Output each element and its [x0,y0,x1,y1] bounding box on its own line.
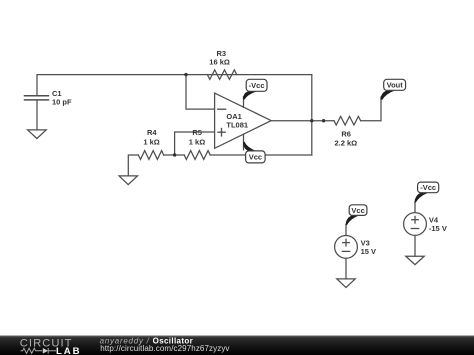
svg-text:http://circuitlab.com/c297hz67: http://circuitlab.com/c297hz67zyzyv [100,344,229,353]
wire V4 top [414,202,416,213]
svg-text:Vcc: Vcc [351,206,364,215]
svg-text:1 kΩ: 1 kΩ [143,137,159,146]
flag tail Vout [380,91,394,100]
net flag -Vcc (op-amp) [246,79,267,91]
wire output [271,120,334,122]
V3 plus/minus marks [342,239,349,251]
op-amp plus sign [218,129,225,136]
ground (under V3) [337,279,355,288]
op-amp power pin bottom [243,134,245,150]
wire R6 to Vout [361,97,381,121]
capacitor C1 [25,96,49,130]
svg-text:R6: R6 [341,130,351,139]
flag tail -Vcc V4 [414,193,428,203]
svg-text:15 V: 15 V [361,247,376,256]
svg-text:LAB: LAB [56,346,81,355]
logo diode cathode bar and wire [48,348,56,354]
flag tail Vcc V3 [345,215,359,225]
svg-text:Vcc: Vcc [249,153,262,162]
resistor R4 [138,151,163,160]
svg-text:-Vcc: -Vcc [420,183,436,192]
wire top net: C1 top to right vertical [37,75,312,96]
V4 plus/minus marks [411,216,418,228]
wire inverting input [186,75,215,110]
junction node D (output) [322,119,325,122]
wire V3 top [345,225,347,236]
wire V4 bottom [414,235,416,256]
voltage source V4 [404,213,427,236]
op-amp OA1 [215,93,272,148]
net flag Vout [384,79,406,90]
svg-text:10 pF: 10 pF [52,97,72,106]
logo resistor squiggle [21,348,43,353]
svg-text:R4: R4 [147,128,157,137]
op-amp power pin top [243,97,245,107]
junction node A (R3 left / inverting) [184,73,187,76]
ground (under V4) [406,256,424,264]
junction node C (output cross) [310,119,313,122]
net flag -Vcc (V4) [418,182,439,193]
resistor R6 [334,116,361,125]
flag tail -Vcc op-amp [243,91,258,99]
bottom bar [0,336,474,355]
net flag Vcc (V3) [349,205,367,216]
net flag Vcc (op-amp) [246,151,266,163]
op-amp minus sign [218,108,226,110]
svg-text:TL081: TL081 [226,121,248,130]
svg-text:R5: R5 [192,128,202,137]
svg-text:-15 V: -15 V [429,224,447,233]
logo diode [43,348,48,354]
svg-text:2.2 kΩ: 2.2 kΩ [334,139,357,148]
voltage source V3 [335,236,358,259]
svg-text:-Vcc: -Vcc [249,81,265,90]
wire R5 to right vertical [210,154,312,156]
wire right vertical feedback [311,75,313,155]
svg-text:1 kΩ: 1 kΩ [189,137,205,146]
ground (under R4) [119,176,137,185]
resistor R3 [207,70,236,80]
wire R4 left to ground [128,155,138,176]
svg-text:16 kΩ: 16 kΩ [209,58,230,67]
wire non-inverting input [175,132,215,155]
wire V3 bottom [345,258,347,279]
ground (under C1) [28,130,47,139]
wire R4-R5 junction [164,154,185,156]
junction node B (R4/R5) [173,153,176,156]
svg-text:Vout: Vout [387,81,404,90]
resistor R5 [184,151,210,160]
flag tail Vcc op-amp [243,142,257,152]
